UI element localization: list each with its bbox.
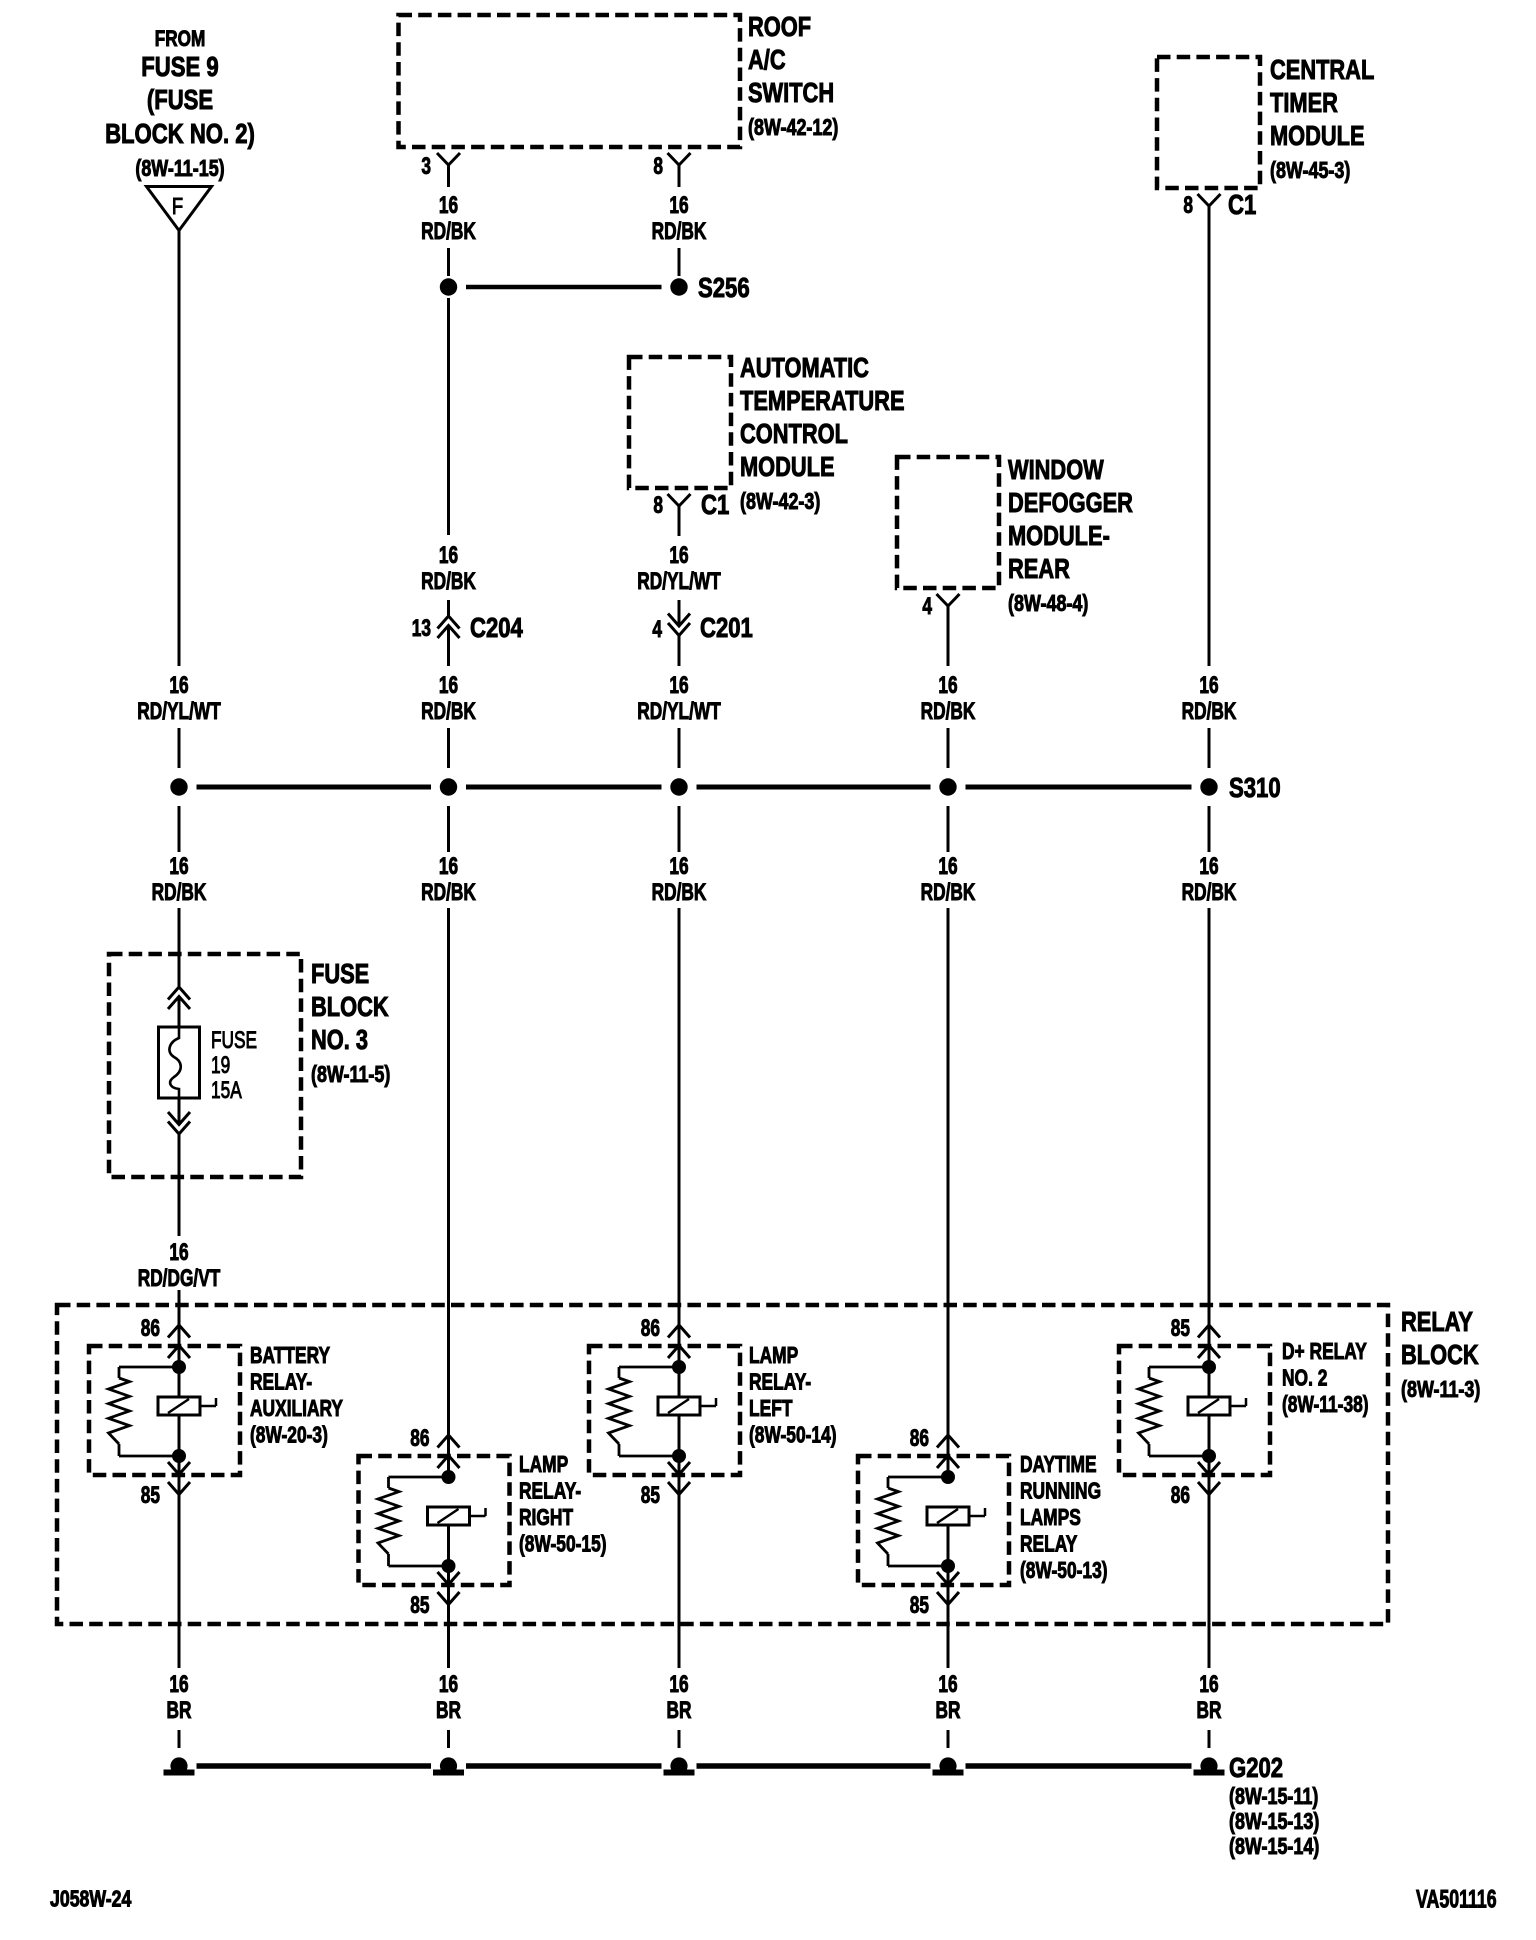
svg-text:85: 85 xyxy=(1171,1315,1191,1341)
svg-text:16: 16 xyxy=(169,1239,188,1265)
svg-text:RD/BK: RD/BK xyxy=(921,879,976,905)
svg-text:RD/BK: RD/BK xyxy=(421,568,476,594)
svg-text:RD/BK: RD/BK xyxy=(1182,698,1237,724)
svg-text:86: 86 xyxy=(1171,1482,1190,1508)
svg-text:(8W-48-4): (8W-48-4) xyxy=(1008,591,1088,617)
svg-text:AUXILIARY: AUXILIARY xyxy=(250,1396,343,1422)
svg-text:BLOCK: BLOCK xyxy=(311,991,389,1022)
svg-text:16: 16 xyxy=(439,1671,458,1697)
svg-text:16: 16 xyxy=(1199,672,1218,698)
svg-text:LAMP: LAMP xyxy=(519,1452,568,1478)
svg-text:S256: S256 xyxy=(698,273,750,304)
svg-text:16: 16 xyxy=(1199,1671,1218,1697)
svg-text:85: 85 xyxy=(141,1482,161,1508)
svg-text:(8W-11-15): (8W-11-15) xyxy=(135,156,224,182)
svg-text:BATTERY: BATTERY xyxy=(250,1343,330,1369)
svg-text:86: 86 xyxy=(641,1315,660,1341)
svg-text:(8W-15-13): (8W-15-13) xyxy=(1229,1809,1319,1835)
svg-text:LAMP: LAMP xyxy=(749,1343,798,1369)
svg-text:16: 16 xyxy=(669,853,688,879)
svg-text:16: 16 xyxy=(1199,853,1218,879)
svg-text:86: 86 xyxy=(910,1425,929,1451)
svg-text:(8W-50-13): (8W-50-13) xyxy=(1020,1558,1108,1584)
svg-text:RD/YL/WT: RD/YL/WT xyxy=(637,568,721,594)
svg-text:(8W-11-5): (8W-11-5) xyxy=(311,1062,390,1088)
svg-text:REAR: REAR xyxy=(1008,553,1070,584)
svg-text:RD/BK: RD/BK xyxy=(921,698,976,724)
svg-text:(8W-11-38): (8W-11-38) xyxy=(1282,1392,1369,1418)
svg-text:MODULE: MODULE xyxy=(1270,120,1365,151)
svg-text:SWITCH: SWITCH xyxy=(748,77,834,108)
svg-text:(8W-50-14): (8W-50-14) xyxy=(749,1422,837,1448)
svg-text:VA501116: VA501116 xyxy=(1416,1884,1497,1913)
svg-text:16: 16 xyxy=(439,192,458,218)
svg-text:(8W-45-3): (8W-45-3) xyxy=(1270,158,1350,184)
svg-text:FUSE: FUSE xyxy=(311,958,369,989)
svg-text:8: 8 xyxy=(653,153,663,179)
svg-text:AUTOMATIC: AUTOMATIC xyxy=(740,352,869,383)
svg-text:(FUSE: (FUSE xyxy=(147,85,213,116)
svg-text:16: 16 xyxy=(169,1671,188,1697)
svg-text:G202: G202 xyxy=(1229,1753,1283,1784)
svg-text:86: 86 xyxy=(141,1315,160,1341)
svg-text:D+ RELAY: D+ RELAY xyxy=(1282,1339,1367,1365)
svg-text:(8W-11-3): (8W-11-3) xyxy=(1401,1377,1480,1403)
svg-text:16: 16 xyxy=(439,853,458,879)
svg-text:BR: BR xyxy=(1197,1697,1222,1723)
svg-text:RD/BK: RD/BK xyxy=(421,218,476,244)
svg-text:C201: C201 xyxy=(700,613,753,644)
svg-text:LAMPS: LAMPS xyxy=(1020,1505,1081,1531)
svg-text:MODULE: MODULE xyxy=(740,451,835,482)
svg-text:(8W-50-15): (8W-50-15) xyxy=(519,1531,607,1557)
svg-text:8: 8 xyxy=(1183,192,1193,218)
svg-text:8: 8 xyxy=(653,492,663,518)
svg-text:13: 13 xyxy=(412,615,431,641)
svg-text:RD/BK: RD/BK xyxy=(421,879,476,905)
svg-text:19: 19 xyxy=(211,1052,230,1078)
svg-text:J058W-24: J058W-24 xyxy=(50,1886,132,1912)
svg-text:RELAY: RELAY xyxy=(1020,1531,1077,1557)
svg-text:RUNNING: RUNNING xyxy=(1020,1478,1101,1504)
svg-text:16: 16 xyxy=(169,672,188,698)
svg-text:F: F xyxy=(172,194,183,219)
svg-text:RELAY-: RELAY- xyxy=(250,1369,312,1395)
svg-text:FUSE: FUSE xyxy=(211,1027,257,1053)
svg-text:A/C: A/C xyxy=(748,44,786,75)
svg-text:16: 16 xyxy=(169,853,188,879)
svg-text:(8W-20-3): (8W-20-3) xyxy=(250,1422,328,1448)
svg-text:LEFT: LEFT xyxy=(749,1396,793,1422)
svg-text:(8W-42-3): (8W-42-3) xyxy=(740,489,820,515)
svg-text:85: 85 xyxy=(910,1592,930,1618)
svg-text:RD/BK: RD/BK xyxy=(1182,879,1237,905)
svg-text:FROM: FROM xyxy=(155,27,206,52)
svg-text:15A: 15A xyxy=(211,1077,242,1103)
svg-text:C1: C1 xyxy=(701,490,729,521)
svg-text:BLOCK: BLOCK xyxy=(1401,1339,1479,1370)
svg-text:(8W-15-11): (8W-15-11) xyxy=(1229,1784,1318,1810)
svg-text:16: 16 xyxy=(669,1671,688,1697)
svg-text:BR: BR xyxy=(436,1697,461,1723)
svg-text:RD/BK: RD/BK xyxy=(652,218,707,244)
svg-text:RD/BK: RD/BK xyxy=(652,879,707,905)
svg-text:WINDOW: WINDOW xyxy=(1008,454,1104,485)
svg-text:16: 16 xyxy=(669,672,688,698)
svg-text:DEFOGGER: DEFOGGER xyxy=(1008,487,1133,518)
svg-text:BR: BR xyxy=(936,1697,961,1723)
svg-text:RELAY-: RELAY- xyxy=(749,1369,811,1395)
svg-text:(8W-42-12): (8W-42-12) xyxy=(748,115,838,141)
svg-text:S310: S310 xyxy=(1229,773,1281,804)
svg-text:85: 85 xyxy=(410,1592,430,1618)
svg-text:C1: C1 xyxy=(1228,190,1256,221)
svg-text:RD/YL/WT: RD/YL/WT xyxy=(637,698,721,724)
svg-text:CONTROL: CONTROL xyxy=(740,418,848,449)
svg-text:TEMPERATURE: TEMPERATURE xyxy=(740,385,905,416)
svg-text:DAYTIME: DAYTIME xyxy=(1020,1452,1097,1478)
svg-text:3: 3 xyxy=(421,153,431,179)
svg-text:TIMER: TIMER xyxy=(1270,87,1338,118)
svg-text:RD/BK: RD/BK xyxy=(421,698,476,724)
svg-text:16: 16 xyxy=(439,672,458,698)
svg-text:16: 16 xyxy=(669,192,688,218)
svg-text:RELAY-: RELAY- xyxy=(519,1478,581,1504)
svg-text:16: 16 xyxy=(439,542,458,568)
svg-text:BR: BR xyxy=(167,1697,192,1723)
svg-text:BR: BR xyxy=(667,1697,692,1723)
svg-text:(8W-15-14): (8W-15-14) xyxy=(1229,1834,1319,1860)
svg-text:16: 16 xyxy=(669,542,688,568)
svg-text:16: 16 xyxy=(938,1671,957,1697)
svg-text:FUSE 9: FUSE 9 xyxy=(141,52,218,83)
svg-text:85: 85 xyxy=(641,1482,661,1508)
svg-text:RD/DG/VT: RD/DG/VT xyxy=(138,1265,221,1291)
svg-text:CENTRAL: CENTRAL xyxy=(1270,54,1374,85)
svg-text:BLOCK NO. 2): BLOCK NO. 2) xyxy=(105,119,255,150)
svg-text:RELAY: RELAY xyxy=(1401,1306,1473,1337)
svg-text:NO. 2: NO. 2 xyxy=(1282,1365,1327,1391)
svg-text:16: 16 xyxy=(938,672,957,698)
svg-text:4: 4 xyxy=(922,593,932,619)
svg-text:RIGHT: RIGHT xyxy=(519,1505,573,1531)
svg-text:16: 16 xyxy=(938,853,957,879)
svg-text:RD/YL/WT: RD/YL/WT xyxy=(137,698,221,724)
svg-text:C204: C204 xyxy=(470,613,523,644)
svg-text:ROOF: ROOF xyxy=(748,11,811,42)
svg-text:4: 4 xyxy=(652,616,662,642)
svg-text:86: 86 xyxy=(410,1425,429,1451)
svg-text:RD/BK: RD/BK xyxy=(152,879,207,905)
svg-text:NO. 3: NO. 3 xyxy=(311,1024,368,1055)
svg-text:MODULE-: MODULE- xyxy=(1008,520,1110,551)
